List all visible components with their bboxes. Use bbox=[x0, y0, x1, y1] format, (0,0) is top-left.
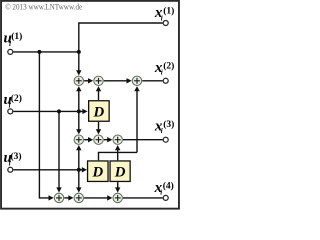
delay register D2 bbox=[88, 161, 109, 182]
wire adder D to adder E bbox=[84, 137, 93, 142]
wire adder A to adder B bbox=[84, 78, 93, 83]
junction u1-col1 bbox=[37, 50, 41, 54]
label u_i^(3) bbox=[4, 150, 22, 168]
wire adder E to adder F bbox=[104, 137, 113, 142]
wire D1 bottom to adder E bbox=[96, 122, 101, 134]
adder C (row1 right) bbox=[132, 76, 141, 85]
adder B (row1 middle) bbox=[94, 76, 103, 85]
wire tap D2 to horizontal bbox=[99, 152, 138, 160]
svg-text:(3): (3) bbox=[11, 151, 22, 162]
label x_i^(4) bbox=[154, 180, 174, 197]
wire D3 bottom to adder H2 bbox=[115, 182, 120, 193]
wire u1 up to x1 bbox=[79, 23, 163, 52]
wire adder H to adder I bbox=[84, 195, 112, 200]
svg-text:(2): (2) bbox=[11, 93, 22, 104]
label x_i^(1) bbox=[154, 5, 174, 23]
svg-text:(3): (3) bbox=[163, 119, 174, 130]
junction u2-col3 bbox=[77, 109, 81, 113]
delay register D1 bbox=[89, 101, 110, 122]
input node u2 bbox=[8, 109, 13, 114]
svg-text:(1): (1) bbox=[163, 6, 174, 17]
wire adder F to x3 bbox=[123, 139, 163, 141]
junction u2-col2 bbox=[57, 109, 61, 113]
adder H (row4 middle) bbox=[74, 193, 83, 202]
wire u1 horizontal bbox=[13, 51, 78, 53]
wire u2 down to adder D bbox=[76, 111, 81, 134]
copyright notice bbox=[5, 2, 82, 12]
svg-text:D: D bbox=[114, 165, 126, 181]
label x_i^(3) bbox=[154, 119, 174, 135]
svg-text:© 2013 www.LNTwww.de: © 2013 www.LNTwww.de bbox=[5, 2, 82, 12]
wire u2 column down to adder G bbox=[56, 111, 61, 192]
label x_i^(2) bbox=[154, 60, 174, 77]
label u_i^(1) bbox=[4, 30, 23, 48]
wire adder C to x2 bbox=[142, 80, 162, 82]
adder D (row2 left) bbox=[74, 135, 83, 144]
svg-text:(1): (1) bbox=[11, 31, 22, 42]
junction u1-col3 bbox=[77, 50, 81, 54]
adder E (row2 middle) bbox=[94, 135, 103, 144]
wire D1 top to adder B bbox=[96, 86, 101, 100]
svg-text:(4): (4) bbox=[163, 181, 174, 192]
svg-text:D: D bbox=[93, 105, 105, 121]
label u_i^(2) bbox=[4, 92, 22, 110]
output node x3 bbox=[163, 137, 168, 142]
output node x4 bbox=[163, 195, 168, 200]
delay register D3 bbox=[110, 161, 130, 182]
svg-text:D: D bbox=[91, 165, 103, 181]
svg-text:(2): (2) bbox=[163, 61, 174, 72]
wire u3 down to adder H bbox=[76, 170, 81, 193]
adder F (row2 right) bbox=[113, 135, 122, 144]
input node u3 bbox=[8, 167, 13, 172]
wire u1 down to adder A bbox=[76, 52, 81, 76]
wire adder B to adder C bbox=[104, 78, 132, 83]
wire u2 horizontal into D1 bbox=[13, 109, 87, 114]
wire adder I to x4 bbox=[123, 197, 163, 199]
output node x1 bbox=[163, 21, 168, 26]
wire u3 up to adder D bbox=[76, 145, 81, 170]
frame border bbox=[1, 1, 179, 209]
wire adder G to adder H bbox=[64, 195, 73, 200]
output node x2 bbox=[163, 78, 168, 83]
wire u2 up to adder A bbox=[76, 86, 81, 111]
wire tap D3 vertical to adder F bbox=[115, 145, 120, 160]
input node u1 bbox=[8, 49, 13, 54]
adder A (row1 left) bbox=[74, 76, 83, 85]
adder I (row4 right) bbox=[113, 193, 122, 202]
adder G (row4 left) bbox=[54, 193, 63, 202]
wire u3 horizontal into D2 bbox=[13, 167, 87, 172]
wire tap up to adder C bbox=[134, 86, 139, 152]
wire u1 column down to adder G bbox=[39, 52, 53, 201]
junction u3-col3 bbox=[77, 168, 81, 172]
